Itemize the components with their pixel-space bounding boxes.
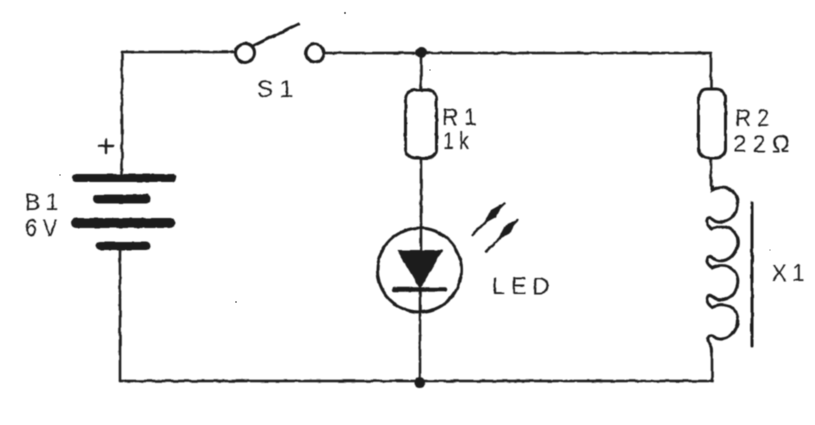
svg-text:1k: 1k bbox=[443, 128, 474, 155]
svg-text:R2: R2 bbox=[735, 105, 775, 132]
svg-text:22Ω: 22Ω bbox=[733, 131, 796, 158]
svg-text:B1: B1 bbox=[25, 189, 64, 216]
svg-text:S1: S1 bbox=[257, 76, 299, 103]
svg-text:X1: X1 bbox=[772, 260, 810, 287]
svg-text:R1: R1 bbox=[442, 104, 482, 131]
svg-text:6V: 6V bbox=[25, 215, 63, 242]
svg-text:LED: LED bbox=[492, 273, 555, 300]
